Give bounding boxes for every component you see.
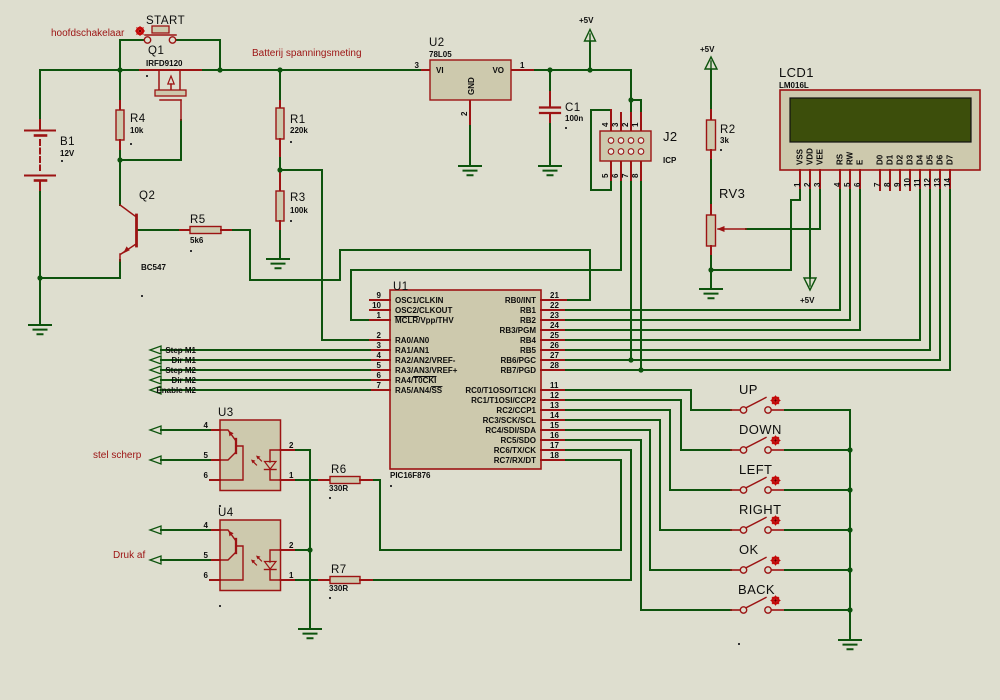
- wire LCD RS down: [839, 190, 841, 310]
- svg-text:VO: VO: [492, 66, 504, 75]
- svg-text:220k: 220k: [290, 126, 308, 135]
- svg-text:330R: 330R: [329, 484, 348, 493]
- wire U3 pin2 to vertical: [296, 450, 310, 629]
- wire top rail right (U2 output to J2 corner): [533, 70, 631, 100]
- svg-text:RW: RW: [846, 151, 855, 165]
- actuator star of START: [136, 27, 145, 36]
- svg-text:4: 4: [204, 421, 209, 430]
- svg-text:U4: U4: [218, 507, 234, 519]
- svg-text:ICP: ICP: [663, 156, 677, 165]
- svg-text:R1: R1: [290, 114, 306, 126]
- svg-text:3: 3: [813, 182, 822, 187]
- svg-text:Dir M1: Dir M1: [172, 356, 197, 365]
- wire RB4 row to LCD D4: [566, 339, 920, 341]
- wire R2 to RV3: [710, 160, 712, 205]
- svg-text:VSS: VSS: [796, 148, 805, 165]
- wire R4 bottom lead green: [119, 149, 121, 160]
- wire LCD VDD down to +5V: [809, 190, 811, 278]
- svg-text:2: 2: [460, 111, 469, 116]
- wire +5V to R2: [710, 70, 712, 110]
- wire LCD RW down: [849, 190, 851, 320]
- svg-text:5: 5: [204, 551, 209, 560]
- wire B1 negative lead: [39, 190, 41, 278]
- svg-text:13: 13: [933, 178, 942, 187]
- svg-text:4: 4: [833, 182, 842, 187]
- svg-text:2: 2: [803, 182, 812, 187]
- svg-text:6: 6: [611, 173, 620, 178]
- svg-text:RB1: RB1: [520, 306, 537, 315]
- svg-text:26: 26: [550, 341, 559, 350]
- wire U3 pin1 to R6: [296, 479, 319, 481]
- button switch BACK: [731, 582, 785, 645]
- wire C1 bottom to ground: [549, 122, 551, 166]
- wire J2 node to pin 2: [630, 100, 632, 113]
- svg-text:RB4: RB4: [520, 336, 537, 345]
- junction node (711,270): [708, 267, 713, 272]
- ground under RV3: [700, 289, 722, 298]
- arrow terminal U4 pin5: [150, 556, 161, 564]
- wire R5 to RB0 net (to U1 pin 21): [231, 230, 590, 300]
- junction node (280,70): [277, 67, 282, 72]
- svg-text:8: 8: [631, 173, 640, 178]
- actuator star of OK: [771, 556, 780, 565]
- junction node (220,70): [217, 67, 222, 72]
- svg-text:Dir M2: Dir M2: [172, 376, 197, 385]
- svg-text:B1: B1: [60, 136, 75, 148]
- svg-text:+5V: +5V: [800, 296, 815, 305]
- svg-text:J2: J2: [663, 129, 678, 144]
- wire R1 bottom to divider node: [279, 156, 281, 170]
- ground under R3: [267, 259, 289, 268]
- svg-text:4: 4: [377, 351, 382, 360]
- wire RIGHT to bus: [785, 529, 850, 531]
- svg-text:25: 25: [550, 331, 559, 340]
- wire arrow to U3 pin4: [161, 429, 210, 431]
- svg-text:D0: D0: [876, 154, 885, 165]
- wire RC0 row to UP button: [566, 390, 731, 410]
- svg-text:1: 1: [289, 571, 294, 580]
- U1 right pin numbers: [550, 291, 559, 460]
- svg-text:78L05: 78L05: [429, 50, 452, 59]
- lcd pin names rotated: [796, 148, 955, 165]
- svg-text:BACK: BACK: [738, 582, 775, 597]
- wire Dir M2 to RA4: [161, 379, 370, 381]
- svg-text:3: 3: [611, 122, 620, 127]
- svg-text:D6: D6: [936, 154, 945, 165]
- wire LCD E down: [859, 190, 861, 330]
- junction node (641,370): [638, 367, 643, 372]
- svg-text:5k6: 5k6: [190, 236, 204, 245]
- svg-text:R3: R3: [290, 192, 306, 204]
- actuator star of RIGHT: [771, 516, 780, 525]
- battery B1: [25, 120, 75, 190]
- svg-text:10: 10: [903, 178, 912, 187]
- svg-text:D2: D2: [896, 154, 905, 165]
- svg-text:6: 6: [204, 471, 209, 480]
- resistor R3: [276, 173, 308, 229]
- svg-text:Druk af: Druk af: [113, 550, 145, 561]
- svg-text:Step M1: Step M1: [165, 346, 196, 355]
- ground under C1: [539, 166, 561, 175]
- svg-text:D5: D5: [926, 154, 935, 165]
- svg-text:5: 5: [601, 173, 610, 178]
- wire RC6 row to R7: [372, 450, 631, 580]
- wire RC3 row to RIGHT button: [566, 420, 731, 530]
- svg-text:stel scherp: stel scherp: [93, 450, 142, 461]
- svg-text:RB2: RB2: [520, 316, 537, 325]
- optocoupler U4: [204, 507, 296, 607]
- svg-text:VEE: VEE: [816, 148, 825, 165]
- junction node (850,490): [847, 487, 852, 492]
- svg-text:RS: RS: [836, 153, 845, 165]
- svg-text:8: 8: [883, 182, 892, 187]
- svg-text:D4: D4: [916, 154, 925, 165]
- svg-text:RA4/T0CKI: RA4/T0CKI: [395, 376, 436, 385]
- arrow terminal U3 pin4: [150, 426, 161, 434]
- resistor R6: [319, 464, 372, 499]
- button switch OK: [731, 542, 785, 573]
- svg-text:330R: 330R: [329, 584, 348, 593]
- svg-text:5: 5: [377, 361, 382, 370]
- svg-text:OSC2/CLKOUT: OSC2/CLKOUT: [395, 306, 452, 315]
- ground under opto vertical: [299, 629, 321, 638]
- svg-text:RB6/PGC: RB6/PGC: [500, 356, 536, 365]
- wire Step M1 to RA1: [161, 349, 370, 351]
- svg-text:RB0/INT: RB0/INT: [505, 296, 536, 305]
- svg-text:4: 4: [204, 521, 209, 530]
- wire C1 top lead: [549, 70, 551, 92]
- U1 left pin numbers: [372, 291, 381, 390]
- power +5V above R2: [700, 45, 717, 69]
- power +5V above J2: [579, 16, 596, 42]
- svg-text:1: 1: [377, 311, 382, 320]
- svg-text:21: 21: [550, 291, 559, 300]
- transistor Q1 IRFD9120: [140, 45, 201, 120]
- button switch LEFT: [731, 462, 785, 493]
- ground under U2: [459, 166, 481, 175]
- capacitor C1: [540, 92, 583, 129]
- wire RC7 row to R6: [372, 460, 621, 550]
- svg-text:14: 14: [550, 411, 559, 420]
- wire R3 bottom to ground: [279, 229, 281, 259]
- svg-text:Q2: Q2: [139, 190, 155, 202]
- svg-text:6: 6: [853, 182, 862, 187]
- svg-text:OK: OK: [739, 542, 759, 557]
- wire LEFT to bus: [785, 489, 850, 491]
- arrow terminal Step M2: [150, 366, 161, 374]
- wire U4 pin1 to R7: [296, 579, 319, 581]
- wire button bus vertical: [849, 410, 851, 640]
- ground under B1: [29, 325, 51, 334]
- arrow terminal Dir M2: [150, 376, 161, 384]
- arrow terminal Dir M1: [150, 356, 161, 364]
- svg-text:14: 14: [943, 178, 952, 187]
- junction node (40,278): [37, 275, 42, 280]
- junction node (550,70): [547, 67, 552, 72]
- svg-text:D1: D1: [886, 154, 895, 165]
- svg-text:1: 1: [631, 122, 640, 127]
- wire RB6/PGC row to LCD D6: [566, 359, 940, 361]
- svg-text:R7: R7: [331, 564, 347, 576]
- svg-text:3: 3: [415, 61, 420, 70]
- wire Dir M1 to RA2: [161, 359, 370, 361]
- svg-text:RB7/PGD: RB7/PGD: [500, 366, 536, 375]
- svg-text:11: 11: [913, 178, 922, 187]
- wire RB1 row to LCD RS: [566, 309, 840, 311]
- svg-text:Q1: Q1: [148, 45, 164, 57]
- junction node (280,170): [277, 167, 282, 172]
- svg-text:R6: R6: [331, 464, 347, 476]
- actuator star of BACK: [771, 596, 780, 605]
- wire arrow to U3 pin5: [161, 459, 210, 461]
- svg-text:23: 23: [550, 311, 559, 320]
- svg-text:2: 2: [289, 441, 294, 450]
- svg-text:2: 2: [289, 541, 294, 550]
- resistor R5: [180, 214, 231, 252]
- resistor R4: [116, 101, 146, 149]
- wire OK to bus: [785, 569, 850, 571]
- svg-text:U2: U2: [429, 37, 445, 49]
- svg-text:Enable M2: Enable M2: [156, 386, 196, 395]
- wire divider node to RA0 (U1 pin 2): [280, 170, 370, 340]
- arrow terminal U3 pin5: [150, 456, 161, 464]
- svg-text:VDD: VDD: [806, 148, 815, 165]
- svg-text:1: 1: [793, 182, 802, 187]
- lcd pin stubs 1-14: [800, 170, 950, 190]
- wire +5V stem at x=590: [589, 42, 591, 70]
- lcd pin numbers rotated: [793, 178, 952, 187]
- svg-text:7: 7: [873, 182, 882, 187]
- svg-text:RC3/SCK/SCL: RC3/SCK/SCL: [483, 416, 536, 425]
- wire arrow to U4 pin4: [161, 529, 210, 531]
- wire RB3 row to LCD E: [566, 329, 860, 331]
- mcu U1 PIC16F876 body: [390, 290, 541, 469]
- arrow terminal Step M1: [150, 346, 161, 354]
- wire U2 ground pin: [469, 124, 471, 166]
- svg-text:3k: 3k: [720, 136, 729, 145]
- svg-text:2: 2: [377, 331, 382, 340]
- svg-text:VI: VI: [436, 66, 444, 75]
- svg-text:100n: 100n: [565, 114, 583, 123]
- junction node (850,450): [847, 447, 852, 452]
- svg-text:RA0/AN0: RA0/AN0: [395, 336, 430, 345]
- svg-text:17: 17: [550, 441, 559, 450]
- actuator star of LEFT: [771, 476, 780, 485]
- U1 overline T0CKI: [414, 376, 437, 378]
- wire RC5 row to BACK button: [566, 440, 731, 610]
- wire LCD VSS to RV3 bottom node: [711, 190, 800, 270]
- svg-text:D3: D3: [906, 154, 915, 165]
- wire START switch right riser: [176, 40, 220, 70]
- button switch DOWN: [731, 422, 785, 453]
- wire Q1 source down to node (120,160): [120, 120, 181, 160]
- wire B1 positive to rail: [39, 70, 41, 120]
- svg-text:10k: 10k: [130, 126, 144, 135]
- wire RC4 row to OK button: [566, 430, 731, 570]
- svg-text:10: 10: [372, 301, 381, 310]
- svg-text:18: 18: [550, 451, 559, 460]
- svg-text:12: 12: [923, 178, 932, 187]
- wire R4 top lead green: [119, 70, 121, 101]
- potentiometer RV3: [707, 186, 747, 256]
- wire RB7/PGD row to LCD D7: [566, 369, 950, 371]
- svg-text:U3: U3: [218, 407, 234, 419]
- svg-text:RC0/T1OSO/T1CKI: RC0/T1OSO/T1CKI: [465, 386, 536, 395]
- wire Step M2 to RA3: [161, 369, 370, 371]
- junction node (850,570): [847, 567, 852, 572]
- svg-text:R2: R2: [720, 124, 736, 136]
- junction node (631,360): [628, 357, 633, 362]
- arrow terminal Enable M2: [150, 386, 161, 394]
- svg-text:RA1/AN1: RA1/AN1: [395, 346, 430, 355]
- svg-text:START: START: [146, 15, 185, 27]
- connector J2 ICP: [600, 110, 678, 180]
- svg-text:RB3/PGM: RB3/PGM: [500, 326, 537, 335]
- wire Q2 base to R5: [138, 229, 180, 231]
- svg-text:LCD1: LCD1: [779, 65, 814, 80]
- U1 right pin names: [465, 296, 536, 465]
- actuator star of DOWN: [771, 436, 780, 445]
- svg-text:C1: C1: [565, 102, 581, 114]
- U1 overline MCLR: [395, 316, 419, 318]
- svg-text:+5V: +5V: [700, 45, 715, 54]
- svg-text:IRFD9120: IRFD9120: [146, 59, 183, 68]
- svg-text:2: 2: [621, 122, 630, 127]
- svg-text:hoofdschakelaar: hoofdschakelaar: [51, 28, 125, 39]
- wire Enable M2 to RA5: [161, 389, 370, 391]
- svg-text:24: 24: [550, 321, 559, 330]
- wire bottom rail B1 negative: [40, 277, 120, 279]
- svg-text:LEFT: LEFT: [739, 462, 772, 477]
- svg-text:GND: GND: [467, 77, 476, 95]
- svg-text:13: 13: [550, 401, 559, 410]
- ground under button bus: [839, 640, 861, 649]
- wire RB5 row to LCD D5: [566, 349, 930, 351]
- junction node (120,160): [117, 157, 122, 162]
- regulator U2 78L05: [415, 37, 533, 124]
- svg-text:16: 16: [550, 431, 559, 440]
- U1 right pin stubs: [541, 300, 566, 460]
- U1 overline SS: [432, 386, 443, 388]
- svg-text:27: 27: [550, 351, 559, 360]
- svg-text:Step M2: Step M2: [165, 366, 196, 375]
- actuator star of UP: [771, 396, 780, 405]
- svg-text:D7: D7: [946, 154, 955, 165]
- svg-text:12V: 12V: [60, 149, 75, 158]
- svg-text:100k: 100k: [290, 206, 308, 215]
- svg-text:1: 1: [520, 61, 525, 70]
- svg-text:R4: R4: [130, 113, 146, 125]
- wire node to ground: [710, 270, 712, 289]
- svg-text:12: 12: [550, 391, 559, 400]
- lcd screen: [790, 98, 971, 142]
- wire RC1 row to DOWN button: [566, 400, 731, 450]
- power +5V below LCD VDD (down arrow): [800, 278, 816, 305]
- junction node (590,70): [587, 67, 592, 72]
- svg-text:RC7/RX/DT: RC7/RX/DT: [494, 456, 536, 465]
- resistor R2: [707, 110, 736, 160]
- lcd LCD1 LM016L body: [780, 90, 980, 170]
- junction node (120,70): [117, 67, 122, 72]
- optocoupler U3: [204, 407, 296, 507]
- wire R1 top lead: [279, 70, 281, 101]
- svg-text:RC5/SDO: RC5/SDO: [500, 436, 536, 445]
- svg-text:4: 4: [601, 122, 610, 127]
- svg-text:7: 7: [377, 381, 382, 390]
- transistor Q2 BC547: [120, 190, 166, 297]
- svg-text:1: 1: [289, 471, 294, 480]
- svg-text:28: 28: [550, 361, 559, 370]
- svg-text:RC4/SDI/SDA: RC4/SDI/SDA: [485, 426, 536, 435]
- resistor R7: [319, 564, 372, 599]
- wire J2 pin4-pin5 loop: [591, 110, 611, 190]
- wire LCD D5 down: [929, 190, 931, 350]
- svg-text:7: 7: [621, 173, 630, 178]
- wire UP to bus: [785, 409, 850, 411]
- wire Q2 collector: [119, 160, 121, 205]
- svg-text:RA2/AN2/VREF-: RA2/AN2/VREF-: [395, 356, 456, 365]
- wire top rail left (battery/switch/R1 to U2 input): [40, 69, 422, 71]
- svg-text:11: 11: [550, 381, 559, 390]
- svg-text:RC1/T1OSI/CCP2: RC1/T1OSI/CCP2: [471, 396, 536, 405]
- wire START switch left riser: [120, 40, 144, 70]
- svg-text:22: 22: [550, 301, 559, 310]
- wire J2 pin 8 down to RB7 row: [640, 180, 642, 370]
- wire Q2 emitter to bottom rail: [119, 260, 121, 278]
- svg-text:E: E: [856, 159, 865, 165]
- svg-text:Batterij spanningsmeting: Batterij spanningsmeting: [252, 48, 362, 59]
- button switch RIGHT: [731, 502, 785, 533]
- wire RB2 row to LCD RW: [566, 319, 850, 321]
- wire J2 pin 7 down to RB6 row: [630, 180, 632, 360]
- wire MCLR to J2 pin 6: [351, 180, 621, 320]
- svg-text:PIC16F876: PIC16F876: [390, 471, 431, 480]
- svg-text:9: 9: [377, 291, 382, 300]
- svg-text:RV3: RV3: [719, 186, 745, 201]
- wire DOWN to bus: [785, 449, 850, 451]
- wire LCD VEE to RV3 wiper: [746, 190, 820, 229]
- junction node (310,550): [307, 547, 312, 552]
- svg-text:5: 5: [204, 451, 209, 460]
- wire U4 pin2 to vertical: [296, 549, 310, 551]
- svg-text:RC6/TX/CK: RC6/TX/CK: [494, 446, 536, 455]
- junction node (850,610): [847, 607, 852, 612]
- wire BACK to bus: [785, 609, 850, 611]
- svg-text:UP: UP: [739, 382, 758, 397]
- wire RV3 bottom to node: [710, 256, 712, 270]
- resistor R1: [276, 101, 308, 156]
- svg-text:R5: R5: [190, 214, 206, 226]
- wire J2 node branch to pin 1: [631, 100, 641, 113]
- wire LCD D4 down: [919, 190, 921, 340]
- U1 left pin names: [395, 296, 458, 395]
- svg-text:BC547: BC547: [141, 263, 166, 272]
- arrow terminal U4 pin4: [150, 526, 161, 534]
- wire B1 ground stub: [39, 278, 41, 325]
- wire RC2 row to LEFT button: [566, 410, 731, 490]
- svg-text:9: 9: [893, 182, 902, 187]
- svg-text:RA5/AN4/SS: RA5/AN4/SS: [395, 386, 443, 395]
- svg-text:DOWN: DOWN: [739, 422, 782, 437]
- switch START: [144, 15, 185, 43]
- svg-text:LM016L: LM016L: [779, 81, 809, 90]
- wire arrow to U4 pin5: [161, 559, 210, 561]
- svg-text:MCLR/Vpp/THV: MCLR/Vpp/THV: [395, 316, 454, 325]
- svg-text:6: 6: [204, 571, 209, 580]
- button switch UP: [731, 382, 785, 413]
- junction node (631,100): [628, 97, 633, 102]
- svg-text:U1: U1: [393, 281, 409, 293]
